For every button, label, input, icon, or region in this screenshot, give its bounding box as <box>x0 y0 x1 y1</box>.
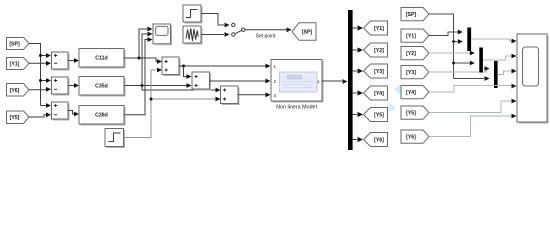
wire mux3 to scope2 <box>498 71 512 75</box>
arrow mux1 bottom <box>458 39 463 44</box>
wire step to switch top <box>201 14 224 26</box>
junction SP-e2 <box>39 79 42 82</box>
wire Y2 to mux2 top <box>429 52 470 54</box>
svg-text:Set point: Set point <box>256 34 276 40</box>
wire Y1 to mux1 top <box>429 32 458 36</box>
svg-text:[Y3]: [Y3] <box>406 70 416 76</box>
junction SP mux2 <box>452 62 455 65</box>
scope2 block <box>517 34 548 123</box>
arrow into demux <box>343 79 348 84</box>
mux2 bar <box>479 48 483 73</box>
from tag [Y6] left <box>7 84 30 97</box>
arrow switch bottom <box>225 32 230 37</box>
junction SP mux1 <box>452 40 455 43</box>
svg-text:C26d: C26d <box>95 113 108 119</box>
arrow into goto Y5 <box>358 112 364 117</box>
wire Y4 to scope2 <box>429 86 512 93</box>
svg-text:[Y5]: [Y5] <box>10 115 20 121</box>
wire sumA out to model port1 <box>179 65 266 67</box>
arrow into model port3 <box>266 92 271 97</box>
arrow into model port1 <box>266 64 271 69</box>
svg-text:[Y1]: [Y1] <box>406 34 416 40</box>
arrow mux1 top <box>458 30 463 35</box>
highlight blob right of demux gotos <box>385 85 406 113</box>
arrow into sum3 plus <box>46 103 51 108</box>
svg-text:[SP]: [SP] <box>406 12 417 18</box>
arrow into sumC top <box>216 88 221 93</box>
wire sumC out to model port3 <box>238 94 266 96</box>
svg-text:[Y6]: [Y6] <box>10 88 20 94</box>
arrow into sumA bottom <box>157 68 162 73</box>
wire SP vertical distribution <box>29 44 46 106</box>
arrow into model port2 <box>266 79 271 84</box>
svg-text:[Y3]: [Y3] <box>374 69 384 75</box>
wire sumB out to model port2 <box>210 80 266 82</box>
controller C11d <box>79 49 125 69</box>
svg-text:[Y1]: [Y1] <box>10 61 20 67</box>
arrow into goto Y4 <box>358 90 364 95</box>
sum block B <box>192 72 211 90</box>
wire u2 C35d out to sumB and scope tap <box>124 34 216 90</box>
scope1 top left <box>153 24 172 45</box>
wire mux2 to scope2 <box>483 56 512 60</box>
from tag [Y4] right <box>401 86 429 99</box>
wire Y5 to scope2 <box>429 101 512 113</box>
from tag [SP] right <box>401 8 429 21</box>
controller C35d <box>79 77 125 97</box>
arrow into sumC bottom <box>216 97 221 102</box>
junction SP-e1 <box>39 54 42 57</box>
svg-text:[Y5]: [Y5] <box>374 113 384 119</box>
arrow into goto Y1 <box>358 25 364 30</box>
wire Y1 to sum1 <box>29 62 46 64</box>
wire Y6 to scope2 <box>429 116 512 137</box>
svg-text:[Y4]: [Y4] <box>406 90 416 96</box>
wire mux1 to scope2 <box>471 39 511 41</box>
sum block e2 <box>52 77 70 95</box>
from tag [Y3] right <box>401 66 429 79</box>
svg-text:[Y4]: [Y4] <box>374 91 384 97</box>
svg-text:[Y2]: [Y2] <box>374 48 384 54</box>
wire switch to goto SP <box>245 29 287 31</box>
arrow into scope1 port1 <box>148 27 153 32</box>
step source bottom <box>105 129 125 148</box>
arrow into goto Y3 <box>358 68 364 73</box>
arrow into sum1 minus <box>46 61 51 66</box>
goto tag [Y5] <box>364 108 388 122</box>
from tag [SP] left <box>7 38 30 50</box>
from tag [Y1] right <box>401 29 429 42</box>
mux1 bar <box>467 28 471 52</box>
arrow into scope1 port3 <box>148 37 153 42</box>
arrow into goto Y2 <box>358 47 364 52</box>
noise source <box>183 26 202 44</box>
wire sum2 to C35d <box>68 85 74 87</box>
nonlinear model subsystem <box>271 60 323 103</box>
junction step2 branch <box>150 98 153 101</box>
wire Y3 to mux3 top <box>429 69 487 73</box>
wire sum1 to C11d <box>68 60 74 62</box>
svg-text:C35d: C35d <box>95 84 108 90</box>
svg-text:Non linera Model: Non linera Model <box>276 105 317 111</box>
svg-text:[SP]: [SP] <box>302 30 313 36</box>
goto tag [Y2] <box>364 43 388 57</box>
arrow into sum1 plus <box>46 53 51 58</box>
goto tag [SP] <box>292 23 316 41</box>
svg-text:C11d: C11d <box>95 56 107 62</box>
wire Y6 to sum2 <box>29 89 46 91</box>
demux out wires <box>353 28 357 140</box>
from tag [Y5] right <box>401 106 429 119</box>
arrow into sumA top <box>157 59 162 64</box>
sum block A <box>162 57 180 76</box>
sum block C <box>221 86 240 105</box>
goto tag [Y3] <box>364 64 388 78</box>
arrow into C26d <box>74 112 79 117</box>
goto tag [Y6] <box>364 133 388 147</box>
arrow mux2 bottom <box>470 61 475 66</box>
wire step2 up to sums <box>124 70 216 138</box>
arrow mux2 top <box>470 51 475 56</box>
arrow mux3 top <box>485 66 490 71</box>
manual switch <box>232 23 245 36</box>
wire Y5 to sum3 <box>29 115 46 117</box>
wire sum3 to C26d <box>68 111 74 115</box>
svg-text:[Y6]: [Y6] <box>374 138 384 144</box>
arrow into sumB bottom <box>187 83 192 88</box>
goto tag [Y4] <box>364 86 388 100</box>
from tag [Y1] left <box>7 58 30 70</box>
mux3 bar <box>494 61 498 88</box>
from tag [Y5] left <box>7 111 30 124</box>
from tag [Y6] right <box>401 130 429 143</box>
junction sumA out <box>182 65 185 68</box>
wire u1 C11d out to sumA and scope tap <box>124 29 157 62</box>
wire branch to sumB top <box>184 66 187 77</box>
arrow into sum3 minus <box>46 112 51 117</box>
arrows into scope2 ports <box>512 39 517 44</box>
demux bar <box>348 10 353 150</box>
arrow into sum2 plus <box>46 78 51 83</box>
wire u3 C26d out to scope tap <box>124 40 148 115</box>
goto tag [Y1] <box>364 21 388 35</box>
arrow mux3 bottom <box>485 76 490 81</box>
step source top <box>183 5 202 23</box>
from tag [Y2] right <box>401 47 429 60</box>
svg-text:[Y1]: [Y1] <box>374 26 384 32</box>
arrow into C11d <box>74 58 79 63</box>
svg-text:[Y6]: [Y6] <box>406 135 416 141</box>
arrow into sum2 minus <box>46 87 51 92</box>
arrow into C35d <box>74 83 79 88</box>
controller C26d <box>79 106 125 126</box>
svg-text:[Y2]: [Y2] <box>406 51 416 57</box>
arrow into goto SP <box>287 27 292 32</box>
arrow into goto Y6 <box>358 137 364 142</box>
junction u2 <box>141 84 144 87</box>
arrow switch top <box>225 23 230 28</box>
sum block e3 <box>52 102 70 120</box>
svg-text:[SP]: [SP] <box>9 41 20 47</box>
junction u1 <box>138 57 141 60</box>
sum block e1 <box>52 52 70 70</box>
wire noise to switch bottom <box>201 34 224 36</box>
arrow into scope1 port2 <box>148 32 153 37</box>
svg-text:[Y5]: [Y5] <box>406 111 416 117</box>
arrow into sumB top <box>187 74 192 79</box>
wire SP right distribution <box>429 14 484 79</box>
wire model out to demux <box>322 80 342 82</box>
